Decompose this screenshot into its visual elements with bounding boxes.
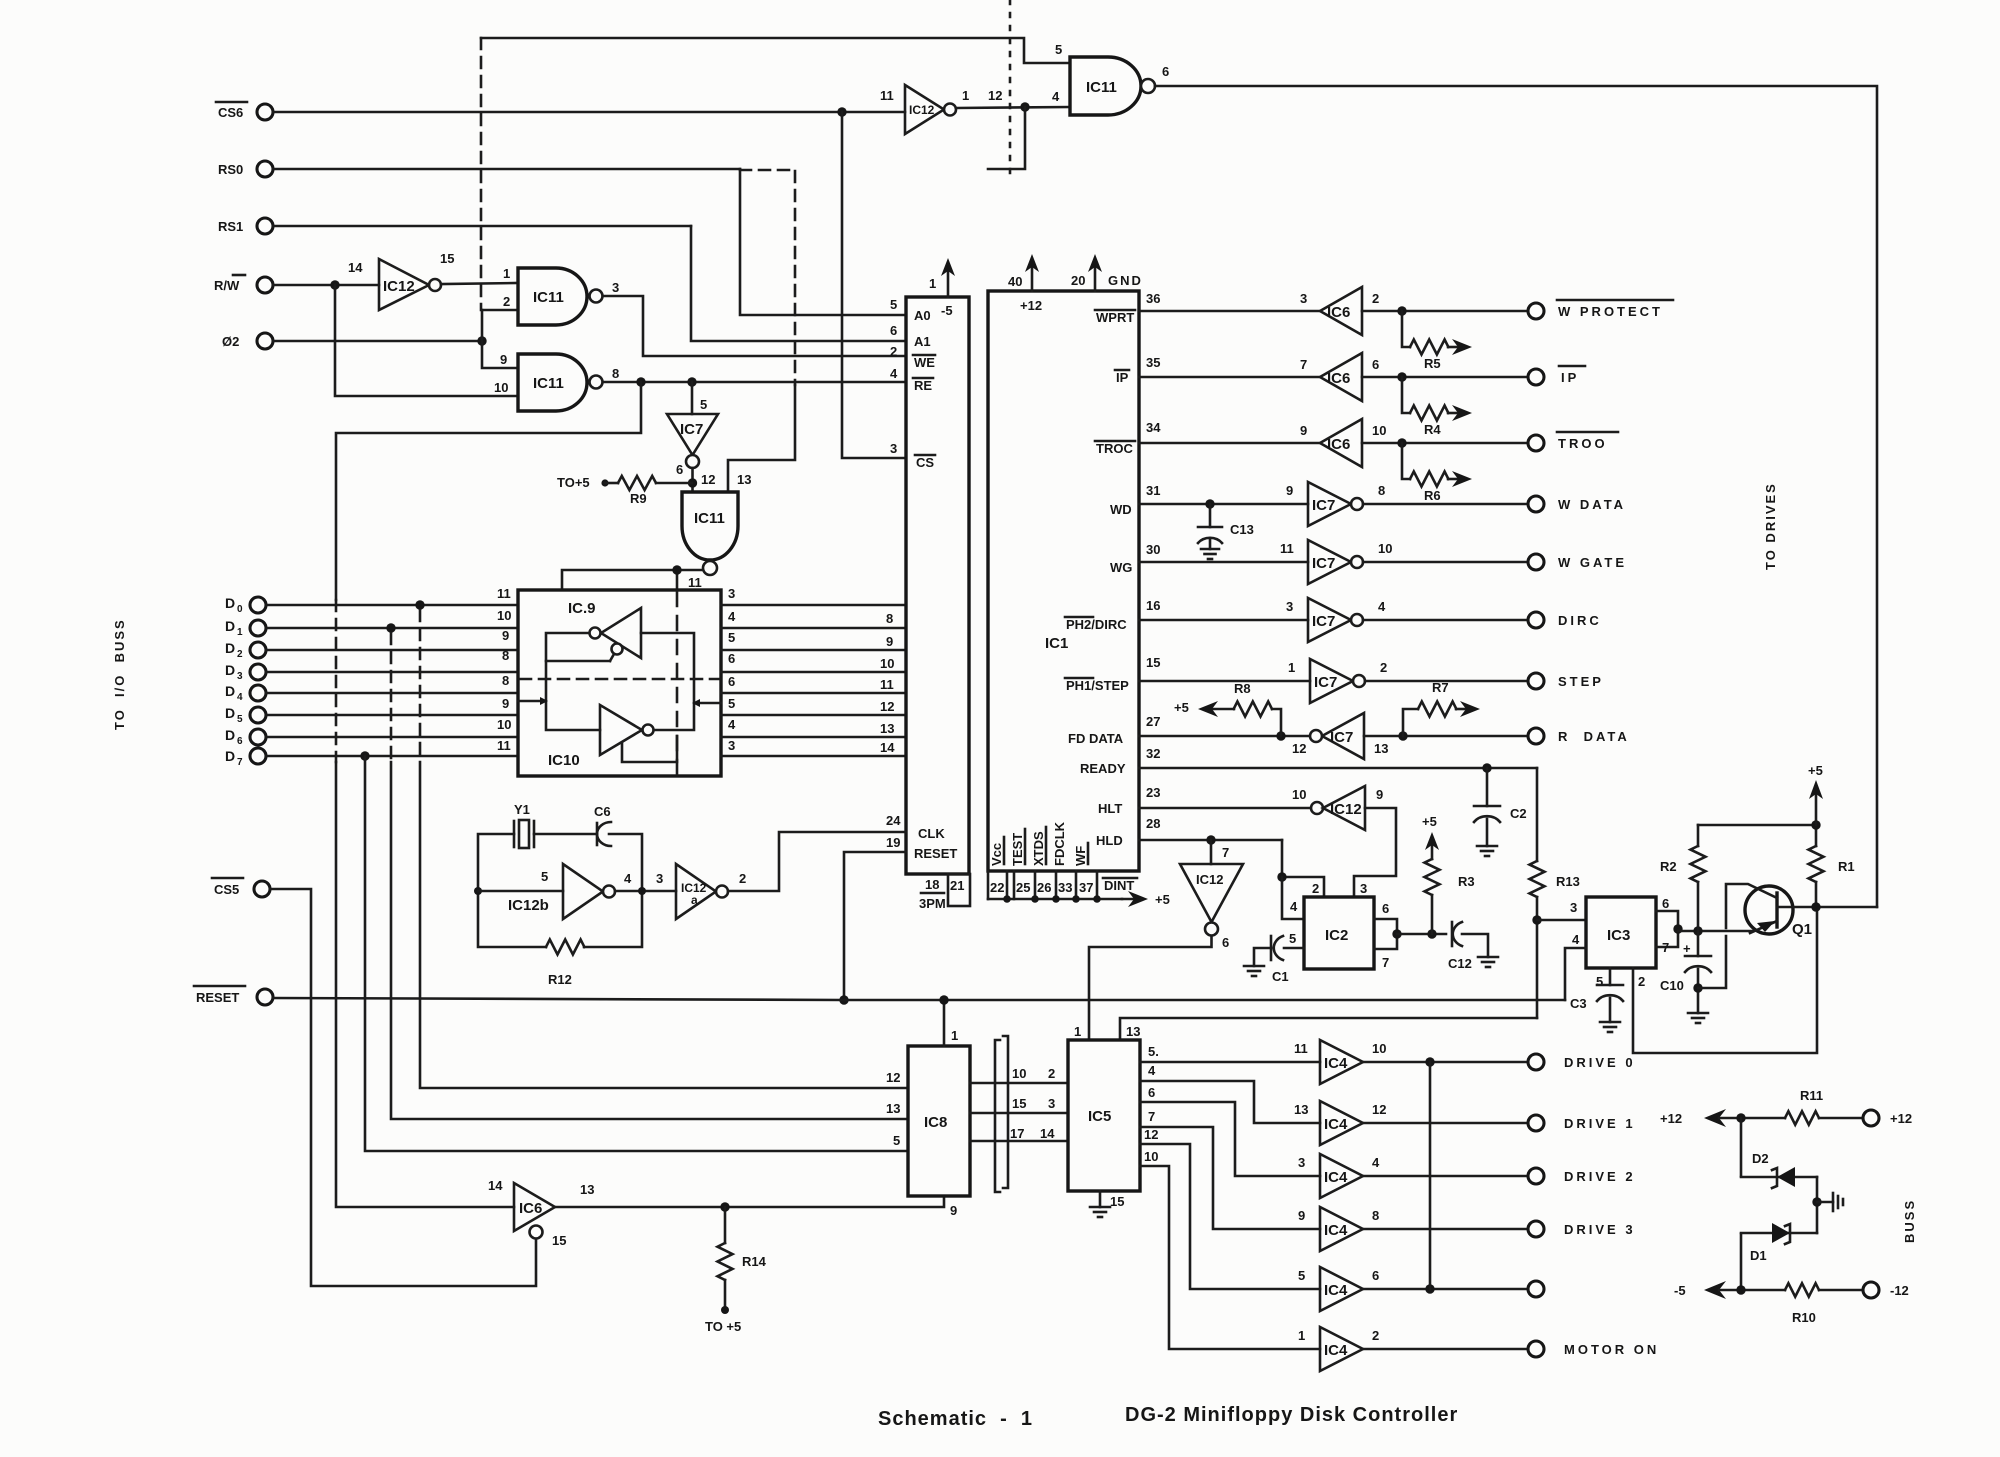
IC1 bottom pin 21 box (948, 874, 970, 906)
wire drive0 to spare tie (1429, 1062, 1432, 1289)
dashed mid line of box (520, 678, 719, 681)
svg-text:D: D (225, 662, 235, 678)
port tick left (518, 700, 540, 703)
svg-text:8: 8 (502, 673, 509, 688)
wire +5 to R1 R2 (1698, 824, 1816, 827)
wire D6 (266, 736, 518, 739)
svg-text:WE: WE (914, 355, 935, 370)
svg-text:2: 2 (1372, 1328, 1379, 1343)
svg-text:Y1: Y1 (514, 802, 530, 817)
svg-text:IC11: IC11 (694, 510, 725, 527)
svg-text:-12: -12 (1890, 1283, 1909, 1298)
svg-text:IC.9: IC.9 (568, 600, 596, 617)
svg-text:10: 10 (1378, 541, 1392, 556)
wire IC7 out to junction 12 (691, 468, 694, 492)
wire IC5 pin4 to IC4 drive1 (1140, 1081, 1320, 1123)
svg-text:1: 1 (929, 276, 936, 291)
svg-text:C3: C3 (1570, 996, 1587, 1011)
wire RESET pin 19 feed (844, 852, 906, 1000)
resistor R4 arrow (1402, 377, 1410, 413)
terminal RESET (257, 989, 273, 1005)
wire R/W to NAND2 pin 10 (335, 285, 518, 396)
terminal D0 (250, 597, 266, 613)
wire NAND3 out to IC9/IC10 enables (562, 570, 703, 590)
svg-text:14: 14 (1040, 1126, 1055, 1141)
svg-text:IC7: IC7 (1312, 497, 1335, 514)
svg-text:R DATA: R DATA (1558, 729, 1630, 744)
svg-text:7: 7 (1382, 955, 1389, 970)
NAND gate IC11 (upper, pins 1,2,3) (518, 268, 587, 325)
wires box to IC1 pins 8-14 (721, 604, 906, 607)
svg-text:7: 7 (237, 757, 243, 768)
svg-text:D2: D2 (1752, 1151, 1769, 1166)
terminal D3 (250, 664, 266, 680)
inverter IC6 (bottom, gated) (514, 1183, 555, 1231)
svg-text:14: 14 (348, 260, 363, 275)
Q1 base lead to R1 node (1777, 906, 1877, 909)
svg-text:CS6: CS6 (218, 105, 243, 120)
svg-text:3: 3 (237, 671, 243, 682)
wire IC12b out (615, 890, 676, 893)
svg-text:TO DRIVES: TO DRIVES (1763, 482, 1778, 570)
wire pin4 junction down to RS0 stub (988, 107, 1025, 169)
inverter IC12 (CS6, top) (905, 85, 944, 134)
svg-text:4: 4 (890, 366, 898, 381)
terminal W PROTECT (1528, 303, 1544, 319)
svg-text:IC10: IC10 (548, 752, 580, 769)
IC9/IC10 transceiver box (518, 590, 721, 776)
wire D1 drop to IC8 pin 13 (390, 633, 393, 762)
svg-text:D1: D1 (1750, 1248, 1767, 1263)
wire WD (1139, 503, 1308, 506)
wire top horizontal to IC11 pin 5 (481, 38, 1070, 63)
wire IC12 out to IC2 pin 3 (1354, 808, 1396, 897)
terminal TROO (1528, 435, 1544, 451)
terminal D1 (250, 620, 266, 636)
wire D2 (266, 649, 518, 652)
svg-text:CS: CS (916, 455, 934, 470)
svg-text:13: 13 (1374, 741, 1388, 756)
resistor R8 to +5 (1272, 709, 1281, 736)
svg-text:R8: R8 (1234, 681, 1251, 696)
buffer IC7 (WG) (1308, 540, 1351, 584)
svg-text:12: 12 (880, 699, 894, 714)
svg-text:8: 8 (886, 611, 893, 626)
svg-text:4: 4 (1290, 899, 1298, 914)
svg-text:DRIVE 3: DRIVE 3 (1564, 1222, 1636, 1237)
dashed enable line in box (676, 592, 679, 774)
svg-text:R7: R7 (1432, 680, 1449, 695)
svg-text:READY: READY (1080, 761, 1126, 776)
svg-text:36: 36 (1146, 291, 1160, 306)
svg-text:26: 26 (1037, 880, 1051, 895)
IC9 feedback loop (546, 633, 610, 661)
svg-text:IC12b: IC12b (508, 897, 549, 914)
svg-text:DRIVE 0: DRIVE 0 (1564, 1055, 1636, 1070)
inverter IC12 (R/W) (379, 259, 429, 310)
svg-text:16: 16 (1146, 598, 1160, 613)
wire RESET main run (273, 998, 1565, 1000)
svg-text:HLD: HLD (1096, 833, 1123, 848)
svg-text:A1: A1 (914, 334, 931, 349)
svg-text:RS0: RS0 (218, 162, 243, 177)
wire NAND2 out to RE (603, 381, 906, 384)
svg-text:2: 2 (890, 344, 897, 359)
svg-text:R11: R11 (1800, 1088, 1823, 1103)
svg-text:R6: R6 (1424, 488, 1441, 503)
svg-text:15: 15 (1146, 655, 1160, 670)
resistor R6 arrow (1402, 443, 1410, 479)
svg-text:2: 2 (739, 871, 746, 886)
svg-text:-5: -5 (1674, 1283, 1686, 1298)
svg-text:3: 3 (728, 738, 735, 753)
svg-text:WF: WF (1073, 846, 1088, 866)
svg-text:IC12: IC12 (909, 103, 935, 117)
ground (diodes, rotated) (1817, 1201, 1833, 1204)
svg-text:C10: C10 (1660, 978, 1684, 993)
svg-text:9: 9 (502, 696, 509, 711)
svg-text:IC3: IC3 (1607, 927, 1630, 944)
svg-text:11: 11 (880, 677, 894, 692)
svg-text:3: 3 (612, 280, 619, 295)
wire TROC (1139, 442, 1320, 445)
svg-text:PH2/DIRC: PH2/DIRC (1066, 617, 1127, 632)
svg-text:21: 21 (950, 878, 964, 893)
svg-text:11: 11 (1280, 541, 1294, 556)
IC1 body (right half) (988, 291, 1139, 871)
svg-text:4: 4 (1148, 1063, 1156, 1078)
buffer IC4 (DRIVE 3) (1320, 1207, 1363, 1251)
svg-text:11: 11 (497, 586, 511, 601)
resistor R7 arrow (1403, 709, 1418, 736)
buffer IC6 (IP) (1320, 353, 1362, 401)
svg-text:7: 7 (1300, 357, 1307, 372)
capacitor C13 (1209, 504, 1212, 527)
wire D0 (266, 604, 518, 607)
svg-text:1: 1 (1288, 660, 1295, 675)
svg-text:5: 5 (541, 869, 548, 884)
svg-text:8: 8 (502, 648, 509, 663)
svg-text:STEP: STEP (1558, 674, 1604, 689)
svg-text:C2: C2 (1510, 806, 1527, 821)
terminal D7 (250, 748, 266, 764)
svg-text:IC7: IC7 (1330, 729, 1353, 746)
svg-text:3: 3 (1300, 291, 1307, 306)
svg-text:2: 2 (237, 649, 243, 660)
terminal D2 (250, 642, 266, 658)
svg-text:Vcc: Vcc (989, 843, 1004, 866)
IC10 inverter (right-pointing) (600, 705, 642, 755)
svg-text:10: 10 (880, 656, 894, 671)
svg-text:R/W: R/W (214, 278, 240, 293)
svg-text:CS5: CS5 (214, 882, 239, 897)
svg-text:32: 32 (1146, 746, 1160, 761)
svg-text:3: 3 (1298, 1155, 1305, 1170)
svg-text:3: 3 (656, 871, 663, 886)
svg-text:0: 0 (237, 604, 243, 615)
IC3 pins 6,7 tied (1656, 911, 1678, 947)
svg-text:14: 14 (880, 740, 895, 755)
svg-text:8: 8 (1372, 1208, 1379, 1223)
svg-text:IC12: IC12 (1196, 872, 1223, 887)
resistor R1 (1815, 825, 1818, 846)
svg-text:+12: +12 (1020, 298, 1042, 313)
wire R13 junction to IC3 pin 3 (1537, 919, 1586, 922)
svg-text:5: 5 (1596, 974, 1603, 989)
svg-text:R2: R2 (1660, 859, 1677, 874)
svg-text:A0: A0 (914, 308, 931, 323)
svg-text:10: 10 (1292, 787, 1306, 802)
svg-text:RESET: RESET (196, 990, 239, 1005)
IC9 enable bubble (612, 644, 623, 655)
svg-text:4: 4 (728, 609, 736, 624)
svg-text:10: 10 (1144, 1149, 1158, 1164)
svg-text:19: 19 (886, 835, 900, 850)
svg-text:6: 6 (1148, 1085, 1155, 1100)
wire phase2 (273, 340, 482, 343)
svg-text:15: 15 (552, 1233, 566, 1248)
svg-text:18: 18 (925, 877, 939, 892)
svg-text:7: 7 (1662, 940, 1669, 955)
terminal D5 (250, 707, 266, 723)
svg-text:IC5: IC5 (1088, 1108, 1111, 1125)
svg-text:IC11: IC11 (533, 375, 564, 392)
svg-text:12: 12 (988, 88, 1002, 103)
svg-text:9: 9 (500, 352, 507, 367)
svg-text:DINT: DINT (1104, 878, 1134, 893)
svg-text:15: 15 (440, 251, 454, 266)
oscillator loop wires (478, 834, 546, 947)
wire WG (1139, 561, 1308, 564)
terminal -12 (1863, 1282, 1879, 1298)
svg-text:MOTOR ON: MOTOR ON (1564, 1342, 1659, 1357)
buffer IC4 (spare) (1320, 1267, 1363, 1311)
svg-text:6: 6 (1662, 896, 1669, 911)
svg-text:3: 3 (1286, 599, 1293, 614)
svg-text:-5: -5 (941, 303, 953, 318)
terminal D4 (250, 685, 266, 701)
svg-text:37: 37 (1079, 880, 1093, 895)
svg-text:1: 1 (237, 627, 243, 638)
svg-text:13: 13 (737, 472, 751, 487)
terminal W GATE (1528, 554, 1544, 570)
terminal D6 (250, 729, 266, 745)
wire RS1 (273, 225, 691, 228)
svg-text:D: D (225, 705, 235, 721)
IC9 inverter (left-pointing) (601, 608, 641, 658)
resistor R2 (1697, 825, 1700, 846)
svg-text:5: 5 (1055, 42, 1062, 57)
svg-text:12: 12 (1144, 1127, 1158, 1142)
wire RE to IC7 inverter input (691, 382, 694, 414)
terminal phase2 (257, 333, 273, 349)
terminal DRIVE 0 (1528, 1054, 1544, 1070)
svg-text:PH1/STEP: PH1/STEP (1066, 678, 1129, 693)
inverter IC12 (HLD, down) (1210, 840, 1213, 864)
svg-text:4: 4 (1572, 932, 1580, 947)
svg-text:20: 20 (1071, 273, 1085, 288)
svg-text:4: 4 (624, 871, 632, 886)
svg-text:D: D (225, 683, 235, 699)
wire diode chain vertical (1740, 1118, 1743, 1176)
svg-text:RE: RE (914, 378, 932, 393)
svg-text:W PROTECT: W PROTECT (1558, 304, 1663, 319)
svg-text:IC4: IC4 (1324, 1055, 1348, 1072)
wire IC5 pin5 to IC4 drive0 (1140, 1061, 1320, 1064)
svg-text:2: 2 (1312, 881, 1319, 896)
svg-text:DIRC: DIRC (1558, 613, 1602, 628)
svg-text:34: 34 (1146, 420, 1161, 435)
svg-text:WG: WG (1110, 560, 1132, 575)
wire CS6 vertical to CS pin (842, 112, 904, 458)
svg-text:6: 6 (676, 462, 683, 477)
svg-text:IC4: IC4 (1324, 1116, 1348, 1133)
svg-text:5: 5 (237, 714, 243, 725)
svg-text:4: 4 (1372, 1155, 1380, 1170)
svg-text:6: 6 (890, 323, 897, 338)
wire inverter out to IC11 pin 4 (956, 107, 1070, 108)
page seam dashes top (1009, 0, 1012, 173)
svg-text:10: 10 (1012, 1066, 1026, 1081)
wire CS5 to IC6 gate bubble (270, 889, 536, 1286)
buffer IC7 (DIRC) (1308, 598, 1351, 642)
svg-text:2: 2 (1372, 291, 1379, 306)
capacitor C1 on pin 5 (1284, 947, 1304, 950)
svg-text:XTDS: XTDS (1031, 831, 1046, 866)
wire PH1/STEP (1139, 680, 1310, 683)
wire enable run down to IC6 input (336, 762, 514, 1207)
svg-text:TEST: TEST (1010, 833, 1025, 866)
buffer IC4 (DRIVE 2) (1320, 1154, 1363, 1198)
svg-text:R10: R10 (1792, 1310, 1816, 1325)
svg-text:12: 12 (701, 472, 715, 487)
svg-text:13: 13 (1126, 1024, 1140, 1039)
svg-text:3: 3 (1048, 1096, 1055, 1111)
svg-text:TROO: TROO (1558, 436, 1608, 451)
svg-text:+5: +5 (1155, 892, 1170, 907)
svg-text:FDCLK: FDCLK (1052, 821, 1067, 866)
svg-text:28: 28 (1146, 816, 1160, 831)
svg-text:4: 4 (1378, 599, 1386, 614)
svg-text:IC8: IC8 (924, 1114, 947, 1131)
svg-text:CLK: CLK (918, 826, 945, 841)
svg-text:40: 40 (1008, 274, 1022, 289)
svg-text:C1: C1 (1272, 969, 1289, 984)
terminal RS1 (257, 218, 273, 234)
svg-text:11: 11 (497, 738, 511, 753)
buffer IC7 (WD) (1308, 482, 1351, 526)
svg-text:4: 4 (1052, 89, 1060, 104)
svg-text:5: 5 (1289, 931, 1296, 946)
svg-text:R14: R14 (742, 1254, 767, 1269)
svg-text:BUSS: BUSS (1902, 1199, 1917, 1243)
svg-text:IC2: IC2 (1325, 927, 1348, 944)
svg-text:IC6: IC6 (519, 1200, 542, 1217)
terminal spare (1528, 1281, 1544, 1297)
IC1 pin 20 arrow GND (1094, 264, 1097, 291)
inverter IC7 (down) (667, 414, 718, 455)
wire IC6 out to IC8 pin 9 (555, 1196, 944, 1207)
svg-text:D: D (225, 618, 235, 634)
buffer IC7 (R DATA, left-pointing) (1322, 713, 1364, 759)
svg-text:6: 6 (1372, 1268, 1379, 1283)
svg-text:+: + (1683, 941, 1691, 956)
NAND gate IC11 (lower, pins 9,10,8) (518, 354, 587, 411)
svg-text:IC7: IC7 (1312, 555, 1335, 572)
terminal R/W (257, 277, 273, 293)
svg-text:5: 5 (728, 630, 735, 645)
IC10 enable tail (622, 736, 677, 762)
wire R13 bottom to IC5 pin 13 (1120, 1018, 1537, 1040)
svg-text:IC7: IC7 (1312, 613, 1335, 630)
wire D5 (266, 714, 518, 717)
wire CS6 to inverter (273, 111, 905, 114)
resistor R12 (546, 940, 584, 955)
svg-text:5.: 5. (1148, 1044, 1159, 1059)
svg-text:TROC: TROC (1096, 441, 1133, 456)
IC2 (1304, 897, 1374, 969)
svg-text:9: 9 (950, 1203, 957, 1218)
svg-text:6: 6 (1372, 357, 1379, 372)
svg-text:IC12: IC12 (383, 278, 415, 295)
wire phase2 vertical to NAND pins 2 and 9 (482, 309, 518, 312)
svg-text:13: 13 (1294, 1102, 1308, 1117)
resistor R13 (1536, 768, 1539, 861)
terminal +12 (1863, 1110, 1879, 1126)
svg-text:10: 10 (1372, 1041, 1386, 1056)
ground (C2) (1477, 845, 1497, 848)
wire pin7 node to Q1 emitter (1678, 930, 1753, 933)
svg-text:9: 9 (502, 628, 509, 643)
svg-text:9: 9 (1298, 1208, 1305, 1223)
svg-text:5: 5 (893, 1133, 900, 1148)
wire D1 (266, 627, 518, 630)
wire PH2/DIRC (1139, 619, 1308, 622)
svg-text:D: D (225, 640, 235, 656)
svg-text:a: a (691, 893, 698, 907)
svg-text:12: 12 (886, 1070, 900, 1085)
svg-text:2: 2 (503, 294, 510, 309)
svg-text:1: 1 (503, 266, 510, 281)
svg-text:4: 4 (728, 717, 736, 732)
svg-text:R1: R1 (1838, 859, 1855, 874)
svg-text:1: 1 (962, 88, 969, 103)
terminal DRIVE 3 (1528, 1221, 1544, 1237)
svg-text:C6: C6 (594, 804, 611, 819)
svg-text:14: 14 (488, 1178, 503, 1193)
svg-text:7: 7 (1222, 845, 1229, 860)
svg-text:2: 2 (1638, 974, 1645, 989)
wire IC5 pin7 to IC4 drive3 (1140, 1127, 1320, 1229)
IC1 bottom pin boxes 22 25 26 33 37 (987, 871, 990, 899)
svg-text:Ø2: Ø2 (222, 334, 239, 349)
wire IC12 out to IC5 pin 1 (1089, 936, 1212, 1040)
ground (C12) (1478, 956, 1498, 959)
wire HLT (1139, 807, 1311, 810)
svg-text:9: 9 (1286, 483, 1293, 498)
IC3 (1586, 897, 1656, 968)
terminal CS5 (254, 881, 270, 897)
buffer IC7 (STEP) (1310, 659, 1353, 703)
svg-text:D: D (225, 748, 235, 764)
wire RS0 (273, 168, 740, 171)
svg-text:IC7: IC7 (680, 421, 703, 438)
svg-text:1: 1 (1298, 1328, 1305, 1343)
wire D3 (266, 671, 518, 674)
svg-text:2: 2 (1048, 1066, 1055, 1081)
svg-text:8: 8 (1378, 483, 1385, 498)
svg-text:3: 3 (728, 586, 735, 601)
